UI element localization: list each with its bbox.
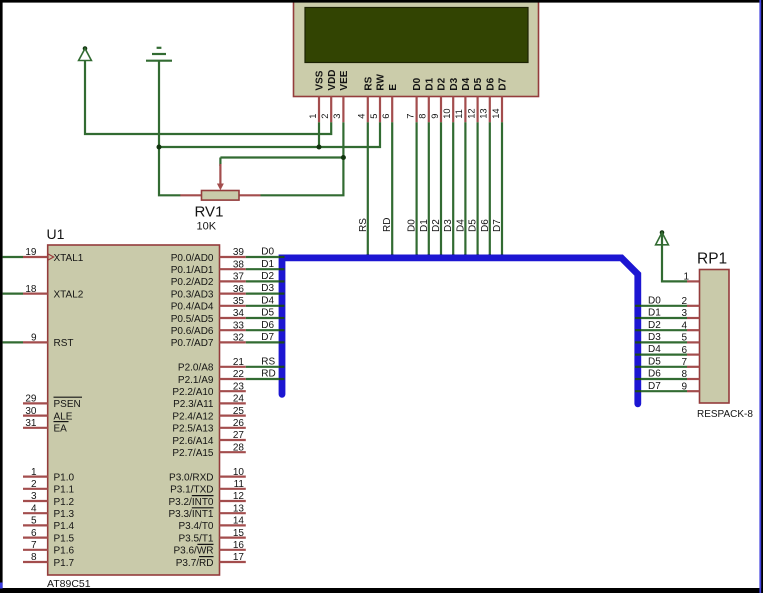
- svg-text:U1: U1: [47, 226, 65, 242]
- svg-text:D5: D5: [261, 308, 274, 319]
- frame border bottom: [0, 588, 763, 593]
- svg-text:5: 5: [681, 333, 687, 344]
- svg-text:EA: EA: [54, 424, 68, 435]
- svg-text:15: 15: [233, 528, 245, 539]
- svg-text:P1.5: P1.5: [54, 533, 75, 544]
- svg-text:RD: RD: [261, 369, 275, 380]
- U1 left pin names: [54, 253, 84, 569]
- svg-text:D0: D0: [412, 77, 423, 90]
- svg-text:P2.5/A13: P2.5/A13: [172, 424, 214, 435]
- U1 right pins (stubs): [220, 257, 246, 562]
- svg-text:P1.2: P1.2: [54, 497, 75, 508]
- svg-text:14: 14: [233, 516, 245, 527]
- wires U1 P0.0-P0.7 and RS RD to bus: [246, 257, 285, 379]
- net labels RS RD D0-D7 (rotated): [358, 218, 503, 232]
- svg-text:12: 12: [233, 491, 245, 502]
- svg-text:P2.6/A14: P2.6/A14: [172, 436, 214, 447]
- svg-text:39: 39: [233, 247, 245, 258]
- wires bus to RP1 D0-D7: [635, 306, 687, 391]
- svg-text:9: 9: [681, 381, 687, 392]
- svg-text:P2.0/A8: P2.0/A8: [178, 363, 214, 374]
- RP1 pins 2-9 stubs: [687, 306, 700, 391]
- LCD pins 1-14: [319, 97, 502, 123]
- svg-text:D4: D4: [455, 219, 466, 232]
- LCD display LCD1 body: [294, 1, 539, 97]
- svg-text:19: 19: [25, 247, 37, 258]
- svg-text:5: 5: [31, 516, 37, 527]
- svg-text:14: 14: [491, 108, 501, 118]
- svg-text:RD: RD: [382, 218, 393, 232]
- svg-text:D2: D2: [437, 77, 448, 90]
- microcontroller U1 AT89C51 body: [48, 245, 220, 575]
- svg-text:P0.1/AD1: P0.1/AD1: [171, 265, 214, 276]
- svg-text:26: 26: [233, 418, 245, 429]
- svg-text:E: E: [388, 84, 399, 91]
- svg-text:P3.1/TXD: P3.1/TXD: [170, 485, 213, 496]
- svg-text:P2.2/A10: P2.2/A10: [172, 387, 214, 398]
- svg-text:RP1: RP1: [697, 251, 727, 268]
- svg-text:D4: D4: [648, 344, 661, 355]
- svg-text:D6: D6: [480, 219, 491, 232]
- svg-text:2: 2: [681, 296, 687, 307]
- svg-text:11: 11: [454, 109, 464, 119]
- svg-text:4: 4: [357, 114, 367, 119]
- svg-text:P3.6/WR: P3.6/WR: [173, 546, 213, 557]
- U1 left pins (stubs and wires): [3, 257, 48, 562]
- svg-text:25: 25: [233, 406, 245, 417]
- svg-text:2: 2: [31, 479, 37, 490]
- svg-text:RW: RW: [376, 74, 387, 91]
- svg-text:13: 13: [479, 108, 489, 118]
- svg-text:P1.7: P1.7: [54, 558, 75, 569]
- power terminal +5V (left): [79, 46, 92, 60]
- svg-text:P0.7/AD7: P0.7/AD7: [171, 338, 214, 349]
- svg-text:4: 4: [31, 503, 37, 514]
- svg-text:8: 8: [31, 552, 37, 563]
- svg-text:21: 21: [233, 357, 245, 368]
- svg-text:P0.5/AD5: P0.5/AD5: [171, 314, 214, 325]
- svg-text:P0.0/AD0: P0.0/AD0: [171, 253, 214, 264]
- svg-text:P3.7/RD: P3.7/RD: [176, 558, 214, 569]
- svg-text:D4: D4: [261, 295, 274, 306]
- svg-text:D1: D1: [419, 219, 430, 232]
- LCD pin name labels VSS VDD VEE RS RW E D0-D7: [315, 69, 509, 90]
- svg-text:36: 36: [233, 284, 245, 295]
- wire power to RP1 pin1: [662, 233, 687, 281]
- svg-text:P2.1/A9: P2.1/A9: [178, 375, 214, 386]
- wire VSS pin1 drop: [318, 122, 320, 147]
- svg-text:D2: D2: [648, 320, 661, 331]
- svg-text:D5: D5: [648, 356, 661, 367]
- svg-text:D6: D6: [485, 77, 496, 90]
- svg-text:29: 29: [25, 394, 37, 405]
- svg-text:P2.3/A11: P2.3/A11: [173, 399, 214, 410]
- U1 right net labels D0-D7 RS RD: [261, 247, 275, 380]
- svg-text:D3: D3: [443, 219, 454, 232]
- wire wiper vertical: [219, 158, 221, 167]
- svg-text:32: 32: [233, 333, 245, 344]
- svg-text:D3: D3: [261, 283, 274, 294]
- svg-text:VDD: VDD: [327, 69, 338, 90]
- svg-text:27: 27: [233, 430, 245, 441]
- svg-text:23: 23: [233, 381, 245, 392]
- frame border left: [0, 0, 3, 593]
- svg-text:RS: RS: [363, 76, 374, 90]
- ground terminal: [146, 48, 172, 61]
- svg-text:RESPACK-8: RESPACK-8: [697, 409, 753, 420]
- svg-text:P0.4/AD4: P0.4/AD4: [171, 302, 214, 313]
- U1 XTAL1 clock mark: [48, 254, 54, 260]
- svg-text:P0.6/AD6: P0.6/AD6: [171, 326, 214, 337]
- svg-text:P3.0/RXD: P3.0/RXD: [169, 472, 213, 483]
- junction ground rail / stem: [157, 145, 162, 150]
- svg-text:D7: D7: [492, 219, 503, 232]
- svg-text:ALE: ALE: [54, 411, 73, 422]
- svg-text:8: 8: [681, 369, 687, 380]
- svg-text:22: 22: [233, 369, 245, 380]
- frame border top: [0, 0, 763, 3]
- svg-text:31: 31: [25, 418, 37, 429]
- wire ground rail to RW pin5: [159, 122, 380, 147]
- svg-text:RS: RS: [261, 356, 275, 367]
- svg-text:38: 38: [233, 259, 245, 270]
- svg-text:D6: D6: [261, 320, 274, 331]
- svg-text:P3.2/INT0: P3.2/INT0: [168, 497, 213, 508]
- svg-text:D6: D6: [648, 369, 661, 380]
- RP1 pin numbers 2-9: [681, 296, 687, 392]
- wire RV1 right terminal up to junction: [261, 158, 344, 196]
- svg-text:33: 33: [233, 320, 245, 331]
- svg-text:35: 35: [233, 296, 245, 307]
- svg-text:P2.4/A12: P2.4/A12: [172, 411, 214, 422]
- svg-text:D0: D0: [261, 247, 274, 258]
- svg-text:PSEN: PSEN: [54, 399, 81, 410]
- svg-text:30: 30: [25, 406, 37, 417]
- svg-text:XTAL2: XTAL2: [54, 289, 84, 300]
- svg-text:P1.3: P1.3: [54, 509, 75, 520]
- svg-text:6: 6: [381, 114, 391, 119]
- svg-text:6: 6: [681, 345, 687, 356]
- svg-text:12: 12: [466, 108, 476, 118]
- svg-text:XTAL1: XTAL1: [54, 253, 84, 264]
- wire wiper horizontal: [220, 156, 343, 158]
- svg-text:RST: RST: [54, 338, 74, 349]
- junction VEE / wiper / right terminal: [341, 155, 346, 160]
- svg-text:D7: D7: [498, 77, 509, 90]
- svg-text:RV1: RV1: [195, 204, 224, 221]
- data bus (blue): [282, 258, 638, 404]
- potentiometer RV1: [180, 164, 260, 200]
- svg-text:13: 13: [233, 503, 245, 514]
- svg-text:D5: D5: [468, 219, 479, 232]
- svg-text:7: 7: [681, 357, 687, 368]
- svg-text:6: 6: [31, 528, 37, 539]
- svg-text:7: 7: [405, 114, 415, 119]
- svg-text:D3: D3: [648, 332, 661, 343]
- svg-text:P3.5/T1: P3.5/T1: [178, 533, 213, 544]
- svg-text:D5: D5: [473, 77, 484, 90]
- svg-text:D1: D1: [424, 77, 435, 90]
- svg-text:D7: D7: [261, 332, 274, 343]
- svg-text:8: 8: [418, 114, 428, 119]
- svg-text:1: 1: [308, 114, 318, 119]
- svg-text:7: 7: [31, 540, 37, 551]
- junction VSS / ground rail: [317, 145, 322, 150]
- wires LCD RS RD D0-D7 down to bus: [368, 122, 502, 254]
- svg-text:10K: 10K: [197, 221, 217, 233]
- svg-text:16: 16: [233, 540, 245, 551]
- svg-text:37: 37: [233, 272, 245, 283]
- svg-text:D4: D4: [461, 77, 472, 90]
- wire VEE pin3 to wiper junction: [342, 122, 344, 157]
- svg-text:D7: D7: [648, 381, 661, 392]
- svg-text:11: 11: [234, 479, 245, 490]
- svg-text:28: 28: [233, 442, 245, 453]
- svg-text:1: 1: [31, 467, 37, 478]
- svg-text:D1: D1: [261, 259, 274, 270]
- resistor pack RP1 body: [700, 270, 730, 404]
- svg-text:10: 10: [233, 467, 245, 478]
- svg-text:3: 3: [31, 491, 37, 502]
- U1 right pin names: [168, 253, 213, 569]
- svg-text:D0: D0: [648, 295, 661, 306]
- U1 right pin numbers: [233, 247, 245, 563]
- svg-text:P3.4/T0: P3.4/T0: [178, 521, 213, 532]
- svg-text:P1.4: P1.4: [54, 521, 75, 532]
- svg-text:P2.7/A15: P2.7/A15: [172, 448, 214, 459]
- svg-text:D2: D2: [431, 219, 442, 232]
- svg-text:2: 2: [320, 114, 330, 119]
- svg-text:P1.0: P1.0: [54, 472, 75, 483]
- U1 left pin numbers: [25, 247, 37, 563]
- svg-text:P0.2/AD2: P0.2/AD2: [171, 277, 214, 288]
- svg-text:P1.6: P1.6: [54, 546, 75, 557]
- svg-text:P1.1: P1.1: [54, 485, 75, 496]
- svg-text:P0.3/AD3: P0.3/AD3: [171, 289, 214, 300]
- RP1 pin1 stub: [687, 280, 700, 282]
- svg-text:RS: RS: [358, 218, 369, 232]
- LCD pin numbers 1-14: [308, 108, 501, 118]
- svg-text:3: 3: [332, 114, 342, 119]
- svg-text:24: 24: [233, 394, 245, 405]
- svg-text:9: 9: [31, 333, 37, 344]
- svg-text:VSS: VSS: [315, 70, 326, 90]
- wire ground to RV1 left terminal: [159, 147, 181, 195]
- wire power to VDD pin2: [85, 61, 331, 135]
- wire ends on bus (top): [368, 254, 502, 260]
- svg-text:D3: D3: [449, 77, 460, 90]
- RP1 net labels D0-D7: [648, 295, 661, 391]
- svg-text:10: 10: [442, 108, 452, 118]
- svg-text:34: 34: [233, 308, 245, 319]
- svg-text:4: 4: [681, 320, 687, 331]
- power terminal +5V (right): [656, 230, 669, 245]
- svg-text:5: 5: [369, 114, 379, 119]
- svg-text:D2: D2: [261, 271, 274, 282]
- svg-text:P3.3/INT1: P3.3/INT1: [168, 509, 213, 520]
- svg-text:17: 17: [233, 552, 245, 563]
- svg-text:D1: D1: [648, 308, 661, 319]
- svg-text:D0: D0: [407, 219, 418, 232]
- svg-text:VEE: VEE: [339, 70, 350, 90]
- svg-text:1: 1: [683, 271, 689, 282]
- svg-text:3: 3: [681, 308, 687, 319]
- svg-text:18: 18: [25, 284, 37, 295]
- wire ground stem: [158, 61, 160, 147]
- svg-text:9: 9: [430, 114, 440, 119]
